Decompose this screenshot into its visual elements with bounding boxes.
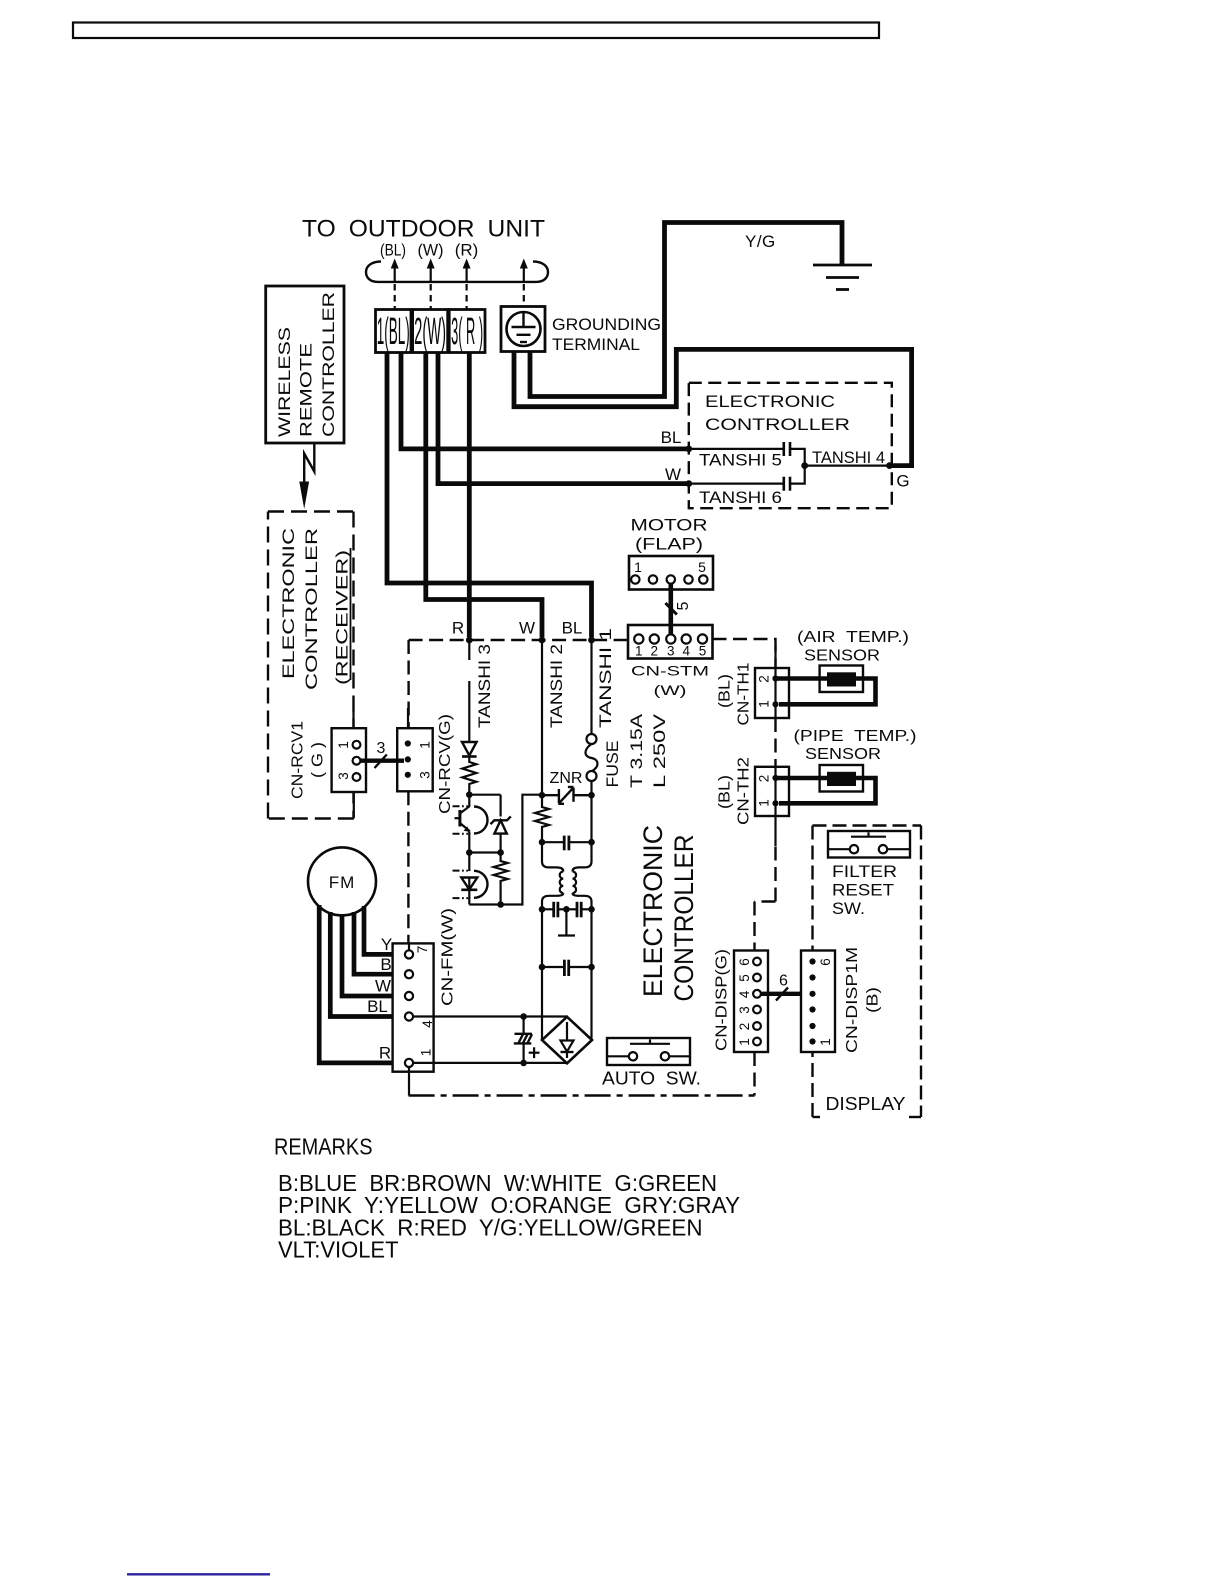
svg-text:CN-DISP(G): CN-DISP(G) [714, 949, 731, 1051]
svg-text:1: 1 [419, 1049, 434, 1057]
svg-text:CN-RCV(G): CN-RCV(G) [437, 714, 454, 814]
svg-text:TANSHI 3: TANSHI 3 [475, 644, 494, 728]
svg-text:5: 5 [675, 601, 692, 610]
svg-text:3: 3 [737, 1006, 752, 1014]
svg-text:TANSHI 2: TANSHI 2 [547, 644, 566, 728]
svg-text:4: 4 [737, 990, 752, 998]
svg-text:G: G [896, 472, 909, 491]
svg-text:1: 1 [818, 1038, 833, 1046]
svg-text:3: 3 [667, 644, 675, 659]
svg-text:R: R [379, 1044, 391, 1063]
svg-text:CN-RCV1: CN-RCV1 [290, 721, 307, 799]
svg-text:7: 7 [415, 946, 430, 954]
svg-text:CN-TH2: CN-TH2 [736, 757, 753, 825]
svg-text:4: 4 [682, 644, 690, 659]
svg-text:(BL): (BL) [380, 242, 406, 260]
svg-text:(BL): (BL) [717, 775, 734, 809]
svg-text:(AIR TEMP.): (AIR TEMP.) [797, 629, 909, 646]
svg-text:VLT:VIOLET: VLT:VIOLET [278, 1237, 399, 1263]
svg-text:(BL): (BL) [717, 674, 734, 708]
svg-text:3: 3 [377, 740, 386, 757]
svg-text:(PIPE TEMP.): (PIPE TEMP.) [794, 728, 917, 745]
svg-text:B: B [380, 955, 391, 974]
svg-text:ELECTRONIC: ELECTRONIC [705, 392, 835, 411]
svg-text:W: W [665, 465, 681, 484]
svg-text:TANSHI 6: TANSHI 6 [699, 488, 782, 507]
svg-text:CONTROLLER: CONTROLLER [320, 292, 338, 437]
svg-text:(FLAP): (FLAP) [635, 535, 703, 554]
svg-text:6: 6 [737, 958, 752, 966]
svg-text:ELECTRONIC: ELECTRONIC [638, 825, 668, 997]
svg-text:CN-STM: CN-STM [631, 663, 709, 679]
svg-text:T 3.15A: T 3.15A [628, 714, 646, 788]
svg-text:Y/G: Y/G [745, 232, 776, 251]
svg-text:ELECTRONIC: ELECTRONIC [280, 528, 298, 679]
svg-text:BL: BL [562, 619, 583, 638]
svg-text:CN-DISP1M: CN-DISP1M [844, 947, 861, 1053]
svg-text:2: 2 [757, 675, 772, 683]
svg-text:1: 1 [757, 799, 772, 807]
svg-text:5: 5 [699, 644, 707, 659]
svg-text:CONTROLLER: CONTROLLER [669, 835, 699, 1002]
svg-text:TERMINAL: TERMINAL [552, 335, 640, 354]
svg-text:2(W): 2(W) [414, 311, 446, 353]
svg-text:FM: FM [329, 873, 356, 892]
svg-text:1: 1 [418, 741, 433, 749]
svg-text:SENSOR: SENSOR [804, 648, 880, 665]
svg-text:(B): (B) [865, 987, 882, 1013]
svg-text:AUTO SW.: AUTO SW. [602, 1068, 701, 1089]
svg-text:CONTROLLER: CONTROLLER [303, 528, 321, 690]
svg-text:(W): (W) [418, 242, 444, 260]
svg-text:TO OUTDOOR UNIT: TO OUTDOOR UNIT [302, 216, 545, 243]
svg-text:TANSHI 4: TANSHI 4 [812, 448, 885, 467]
svg-text:DISPLAY: DISPLAY [826, 1093, 906, 1114]
svg-text:(W): (W) [654, 682, 687, 698]
svg-text:6: 6 [779, 973, 788, 990]
svg-text:WIRELESS: WIRELESS [276, 327, 294, 437]
svg-text:MOTOR: MOTOR [631, 516, 708, 535]
svg-text:BL: BL [367, 997, 388, 1016]
svg-text:2: 2 [651, 644, 659, 659]
svg-text:3( R ): 3( R ) [451, 311, 483, 353]
svg-text:1: 1 [336, 741, 351, 749]
svg-text:GROUNDING: GROUNDING [552, 315, 661, 334]
svg-text:CONTROLLER: CONTROLLER [705, 415, 850, 434]
svg-text:4: 4 [420, 1020, 435, 1028]
svg-text:REMOTE: REMOTE [298, 343, 316, 437]
svg-text:2: 2 [737, 1023, 752, 1031]
svg-text:( G ): ( G ) [310, 742, 327, 778]
svg-text:5: 5 [737, 974, 752, 982]
svg-text:1(BL): 1(BL) [377, 311, 410, 353]
svg-text:BL: BL [661, 428, 682, 447]
svg-text:6: 6 [818, 958, 833, 966]
svg-text:3: 3 [336, 772, 351, 780]
svg-text:L 250V: L 250V [651, 714, 669, 788]
svg-text:REMARKS: REMARKS [274, 1134, 373, 1160]
svg-text:FUSE: FUSE [604, 741, 622, 788]
svg-text:W: W [375, 977, 391, 996]
svg-text:5: 5 [698, 559, 706, 575]
svg-text:R: R [452, 619, 464, 638]
svg-text:SW.: SW. [832, 900, 865, 918]
svg-text:ZNR: ZNR [550, 770, 583, 787]
svg-text:TANSHI 1: TANSHI 1 [596, 628, 615, 728]
svg-text:(RECEIVER): (RECEIVER) [334, 550, 352, 685]
svg-text:TANSHI 5: TANSHI 5 [699, 451, 782, 470]
svg-text:W: W [519, 619, 535, 638]
svg-text:RESET: RESET [832, 882, 894, 900]
svg-text:FILTER: FILTER [832, 863, 897, 881]
svg-text:1: 1 [737, 1038, 752, 1046]
svg-text:SENSOR: SENSOR [805, 746, 881, 763]
svg-text:(R): (R) [455, 242, 479, 260]
svg-text:3: 3 [418, 771, 433, 779]
svg-text:1: 1 [635, 644, 643, 659]
svg-text:CN-TH1: CN-TH1 [736, 662, 753, 725]
svg-text:1: 1 [634, 559, 642, 575]
svg-text:2: 2 [757, 775, 772, 783]
svg-text:1: 1 [757, 700, 772, 708]
svg-text:CN-FM(W): CN-FM(W) [440, 908, 457, 1006]
svg-text:Y: Y [381, 935, 392, 954]
